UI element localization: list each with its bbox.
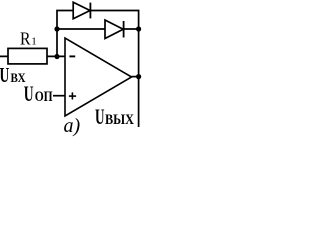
node junction right of lower diode branch [136, 26, 141, 31]
node junction at output [136, 74, 141, 79]
wire lower diode branch [57, 28, 139, 30]
node junction left of lower diode branch [54, 26, 59, 31]
wire Uop to non-inverting input [53, 95, 65, 97]
wire feedback loop: left drop, top run, right vertical [57, 11, 139, 128]
minus input mark [69, 55, 75, 57]
svg-text:ОП: ОП [35, 89, 53, 105]
diode VD1 [73, 2, 90, 19]
op-amp U1 [65, 38, 132, 116]
svg-text:U: U [24, 81, 34, 106]
wire input from Uvx through R1 to inverting input [0, 55, 65, 57]
svg-text:U: U [95, 104, 105, 129]
svg-text:а): а) [64, 115, 81, 137]
svg-text:ВЫХ: ВЫХ [105, 112, 134, 128]
svg-text:1: 1 [31, 36, 37, 48]
resistor R1 [8, 48, 47, 64]
plus input mark [69, 95, 76, 97]
svg-text:R: R [20, 29, 31, 49]
svg-text:U: U [0, 63, 9, 87]
wire op-amp output [132, 76, 139, 78]
node junction at inverting input [54, 54, 59, 59]
diode VD2 [105, 20, 124, 39]
